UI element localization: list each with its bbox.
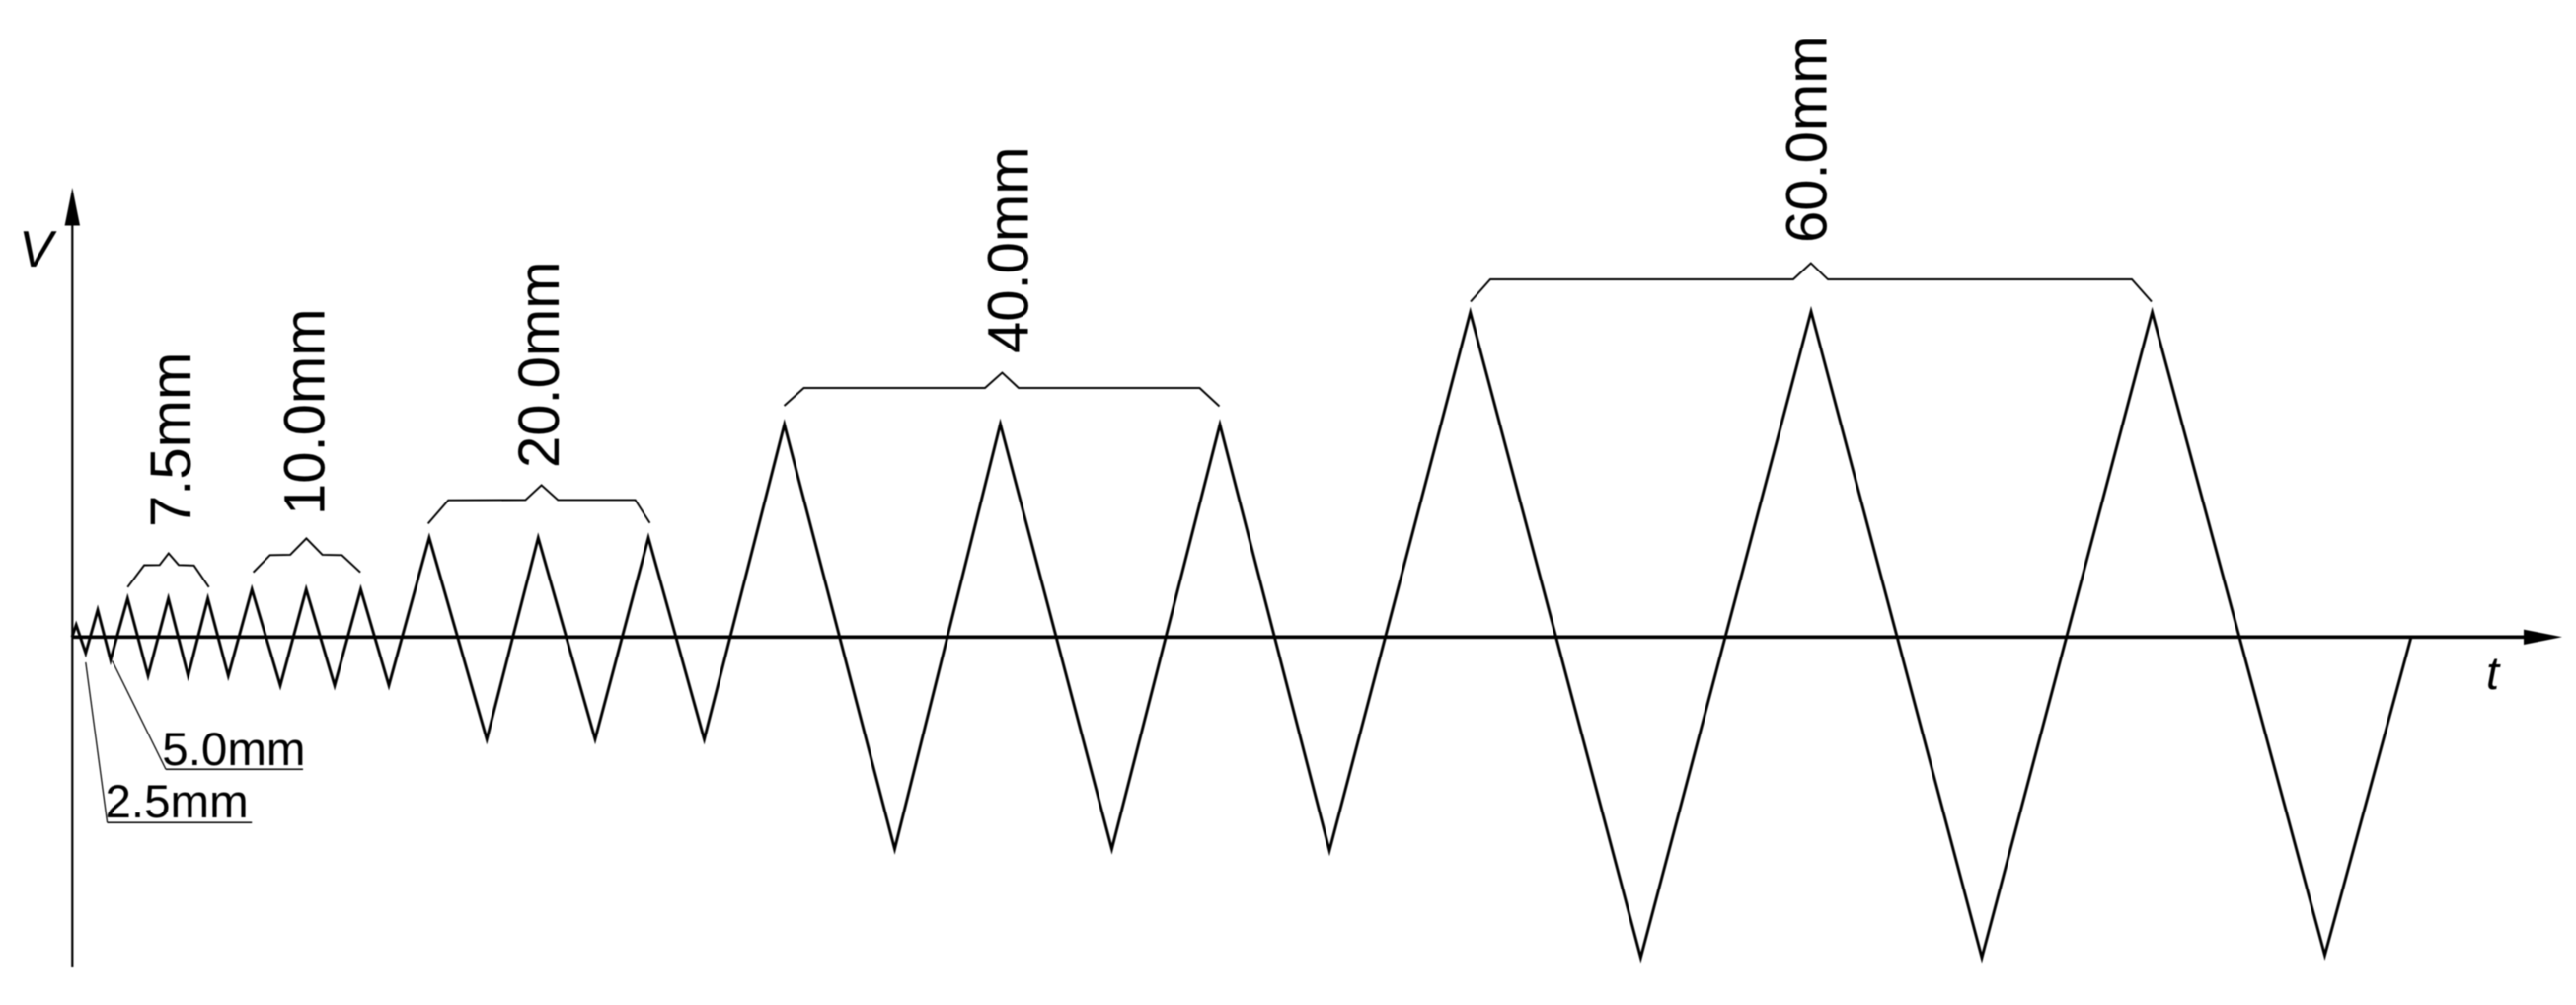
t axis arrowhead [2524, 630, 2562, 645]
brace 10.0mm [254, 538, 361, 572]
V axis (vertical) [71, 224, 73, 967]
svg-text:60.0mm: 60.0mm [1776, 36, 1840, 243]
V axis arrowhead [65, 188, 80, 226]
svg-text:40.0mm: 40.0mm [977, 146, 1041, 353]
svg-text:2.5mm: 2.5mm [106, 776, 249, 828]
svg-text:t: t [2486, 647, 2501, 699]
svg-text:10.0mm: 10.0mm [273, 308, 338, 515]
brace 7.5mm [127, 554, 208, 587]
underline 5.0mm [166, 768, 303, 770]
svg-text:V: V [19, 220, 57, 277]
svg-text:5.0mm: 5.0mm [162, 724, 305, 776]
leader line 2.5mm [86, 662, 108, 822]
underline 2.5mm [108, 821, 253, 823]
brace 20.0mm [428, 485, 650, 523]
waveform: triangle cycles 2.5,5.0,7.5x3,10x3,20x3,40x3,60x3 mm [72, 312, 2411, 959]
brace 40.0mm [785, 373, 1220, 407]
svg-text:20.0mm: 20.0mm [507, 261, 571, 468]
t axis (horizontal) [72, 635, 2527, 639]
svg-text:7.5mm: 7.5mm [139, 352, 203, 527]
leader line 5.0mm [113, 661, 166, 770]
brace 60.0mm [1471, 264, 2152, 302]
